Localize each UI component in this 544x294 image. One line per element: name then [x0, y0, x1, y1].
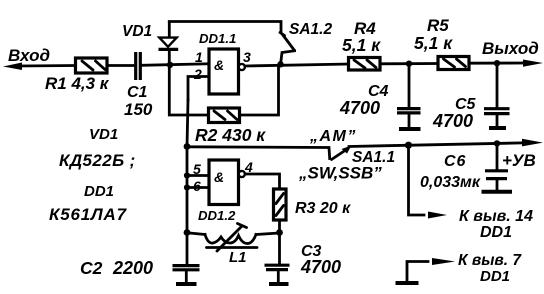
diode VD1	[122, 22, 178, 63]
svg-text:5,1 к: 5,1 к	[342, 35, 381, 55]
resistor R5	[414, 16, 469, 70]
svg-text:4700: 4700	[432, 111, 473, 131]
wire pin 5	[187, 174, 209, 177]
node junction to pin14 lead	[405, 142, 412, 149]
capacitor C4	[339, 65, 421, 129]
svg-text:VD1: VD1	[89, 126, 118, 143]
svg-text:С6: С6	[444, 153, 466, 170]
wire R2 loop right side	[240, 66, 279, 115]
wire to pin 14	[409, 146, 425, 215]
svg-text:0,033мк: 0,033мк	[420, 174, 481, 191]
wire R5 to output	[469, 62, 526, 65]
wire R3 to L1 line	[278, 220, 281, 233]
resistor R1	[45, 58, 110, 93]
node dot L1 left	[184, 229, 191, 236]
svg-text:„АМ”: „АМ”	[309, 128, 357, 145]
svg-text:DD1: DD1	[480, 268, 510, 285]
wire input line	[18, 64, 75, 67]
wire C1 to pin 1 of DD1.1	[142, 64, 209, 66]
node +UV supply arrow	[502, 139, 543, 170]
svg-text:5,1 к: 5,1 к	[414, 33, 453, 53]
svg-text:VD1: VD1	[122, 23, 152, 40]
svg-text:DD1.2: DD1.2	[198, 208, 236, 223]
svg-text:3: 3	[243, 49, 251, 65]
svg-text:1: 1	[195, 49, 203, 65]
svg-text:КД522Б ;: КД522Б ;	[59, 151, 136, 170]
switch SA1.1	[298, 146, 395, 183]
svg-text:К561ЛА7: К561ЛА7	[49, 205, 128, 224]
wire top feedback line	[169, 22, 281, 33]
wire pin 4 to R3	[245, 174, 280, 189]
op-amp U DD1.1 gate	[209, 49, 245, 94]
node junction AM line start	[184, 143, 191, 150]
capacitor C2	[80, 233, 200, 284]
resistor R2	[195, 108, 266, 145]
svg-text:2: 2	[193, 66, 202, 82]
svg-text:DD1: DD1	[84, 183, 114, 200]
resistor R3	[274, 189, 352, 220]
svg-text:2200: 2200	[112, 258, 153, 278]
node dot pin6	[184, 184, 190, 190]
node junction R4/R5/C4	[406, 61, 412, 67]
inductor L1	[187, 224, 280, 267]
switch SA1.2	[280, 21, 332, 63]
svg-text:+УВ: +УВ	[502, 151, 536, 170]
svg-text:Вход: Вход	[8, 46, 50, 65]
svg-text:DD1.1: DD1.1	[199, 31, 236, 46]
wire AM line left part	[187, 147, 330, 159]
svg-text:С1: С1	[127, 84, 148, 101]
capacitor C1	[124, 52, 153, 119]
svg-text:С2: С2	[80, 258, 103, 278]
node Вход input terminal	[3, 46, 50, 70]
svg-text:R1 4,3 к: R1 4,3 к	[45, 74, 110, 93]
node dot L1 right	[276, 229, 283, 236]
wire R2 loop left side	[169, 66, 208, 115]
resistor R4	[342, 19, 381, 70]
node junction dot at diode	[167, 62, 173, 68]
capacitor C6	[420, 144, 512, 192]
op-amp U DD1.2 gate	[209, 160, 245, 205]
wire R1 to C1	[107, 64, 134, 67]
svg-text:150: 150	[124, 100, 153, 119]
svg-text:4700: 4700	[339, 98, 380, 118]
wire R4 to R5	[380, 62, 438, 65]
svg-text:L1: L1	[229, 249, 247, 266]
svg-text:SA1.2: SA1.2	[289, 21, 332, 38]
ground and arrow to pin 7	[396, 252, 523, 285]
svg-text:&: &	[214, 57, 224, 73]
svg-text:R3 20 к: R3 20 к	[295, 200, 351, 217]
svg-text:6: 6	[193, 178, 201, 194]
capacitor C5	[432, 65, 510, 131]
svg-text:К выв. 14: К выв. 14	[459, 208, 533, 225]
node junction R5/C5	[494, 60, 500, 66]
svg-text:„SW,SSB”: „SW,SSB”	[298, 164, 382, 183]
node arrow to pin 14	[428, 208, 533, 241]
svg-text:К выв. 7: К выв. 7	[458, 252, 522, 269]
svg-text:4700: 4700	[300, 257, 341, 277]
wire pin2 vertical down	[187, 100, 188, 233]
wire pin 3 output to R4	[245, 64, 349, 66]
svg-text:DD1: DD1	[480, 224, 512, 241]
svg-text:R2 430 к: R2 430 к	[195, 125, 266, 145]
node dot pin5	[184, 172, 190, 178]
svg-text:&: &	[214, 169, 224, 185]
capacitor C3	[265, 233, 342, 284]
node junction SA1.2 / R2 loop	[277, 61, 283, 67]
wire AM line right part	[349, 143, 527, 147]
node Выход output terminal	[482, 39, 543, 67]
svg-text:Выход: Выход	[482, 39, 539, 58]
wire pin 2 to vertical	[188, 77, 209, 101]
node junction to C6	[494, 140, 500, 146]
wire pin 6	[187, 186, 209, 189]
